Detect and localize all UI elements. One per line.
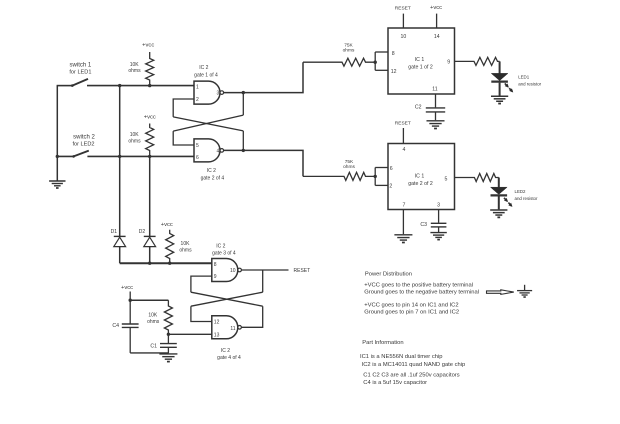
svg-text:C1 C2 C3 are all .1uf 250: C1 C2 C3 are all .1uf 250v capacitors xyxy=(363,372,459,378)
svg-text:9: 9 xyxy=(447,59,450,65)
wire: pin13 to C1 junction xyxy=(168,333,211,335)
wire: gate4 output rail up xyxy=(242,306,263,327)
svg-text:3: 3 xyxy=(217,91,220,97)
ground (LED1) xyxy=(491,95,508,97)
svg-text:10K: 10K xyxy=(130,132,140,138)
LED LED1 xyxy=(499,61,501,73)
svg-text:8: 8 xyxy=(392,51,395,57)
wire: switch1 row to gate1 pin1 xyxy=(87,85,194,87)
svg-text:D2: D2 xyxy=(139,229,146,235)
svg-text:ohms: ohms xyxy=(343,47,355,53)
svg-text:switch 1: switch 1 xyxy=(70,62,92,68)
node: 75K junction xyxy=(374,61,377,64)
IC U1a: 555 box (IC 1 gate 1 of 2) xyxy=(388,28,455,94)
svg-text:C4: C4 xyxy=(112,323,119,329)
resistor 10K (switch1 pull-up) xyxy=(146,52,154,86)
svg-text:ohms: ohms xyxy=(147,319,160,325)
svg-text:4: 4 xyxy=(217,148,220,154)
svg-text:6: 6 xyxy=(196,155,199,161)
svg-text:5: 5 xyxy=(196,143,199,149)
svg-text:IC 2: IC 2 xyxy=(199,65,208,71)
svg-text:D1: D1 xyxy=(111,229,118,235)
svg-text:14: 14 xyxy=(434,34,440,40)
svg-text:Ground goes to the negative ba: Ground goes to the negative battery term… xyxy=(364,290,479,296)
wire: D1 column (row1 to bus) xyxy=(119,86,121,237)
ground (C3) xyxy=(430,232,446,234)
svg-text:+VCC goes to pin 14 on IC1 and: +VCC goes to pin 14 on IC1 and IC2 xyxy=(364,302,458,308)
node: D2 / bus junction xyxy=(148,262,151,265)
svg-text:IC 2: IC 2 xyxy=(207,168,216,174)
svg-text:10K: 10K xyxy=(130,62,140,68)
svg-text:9: 9 xyxy=(214,274,217,280)
LED2 emission arrows xyxy=(504,198,507,201)
svg-text:11: 11 xyxy=(230,326,235,332)
svg-text:+vcc: +vcc xyxy=(430,5,442,11)
LED LED2 xyxy=(498,178,500,188)
ground (LED2) xyxy=(490,209,507,211)
svg-text:+vcc: +vcc xyxy=(161,222,173,228)
wire: cross diagonal (gate1 out -> pin5) xyxy=(173,115,243,131)
svg-text:and resistor: and resistor xyxy=(515,196,538,201)
wire: pin9 feedback rail xyxy=(191,276,212,292)
svg-text:RESET: RESET xyxy=(395,6,411,12)
wire: gate1 output right rail down xyxy=(242,93,244,116)
wire: gate2 output to 555 #2 xyxy=(224,150,303,176)
wire: left vertical rail xyxy=(56,86,58,181)
ground (C1) xyxy=(159,353,177,355)
resistor 75K (into IC1 gate2) xyxy=(303,172,375,180)
svg-text:IC1 is a NE556N dual timer chi: IC1 is a NE556N dual timer chip xyxy=(360,354,442,360)
wire: D2 column (row2 to bus) xyxy=(149,156,151,236)
pin 4 RESET lead xyxy=(402,128,404,144)
switch S2 'switch 2 for LED2' xyxy=(57,155,74,157)
svg-text:for LED1: for LED1 xyxy=(69,70,91,76)
pin 9 output wire + resistor to LED1 xyxy=(455,57,500,65)
wire: pin8/pin12 tie xyxy=(374,52,376,70)
wire: pin2 feedback left rail xyxy=(173,99,194,117)
svg-text:ohms: ohms xyxy=(128,138,141,144)
IC U1b: 555 box (IC 1 gate 2 of 2) xyxy=(388,144,455,210)
svg-text:ohms: ohms xyxy=(128,68,141,74)
wire: bus to gate3 pin 8 xyxy=(120,262,212,264)
svg-text:11: 11 xyxy=(432,86,437,92)
wire: vcc lead down to junction xyxy=(129,292,131,301)
svg-text:1: 1 xyxy=(196,84,199,90)
wire: pin6/pin2 tie xyxy=(374,168,376,186)
svg-text:IC 1: IC 1 xyxy=(415,174,425,180)
node: 75K junction 2 xyxy=(374,175,377,178)
op gate: NAND U2C (IC 2 gate 3 of 4) xyxy=(212,259,238,282)
wire: gate3 output to RESET xyxy=(241,269,288,271)
node: R2/row2 junction xyxy=(148,155,151,158)
svg-text:and resistor: and resistor xyxy=(518,82,541,87)
ground (below switches) xyxy=(49,180,65,182)
svg-text:+vcc: +vcc xyxy=(144,115,156,121)
svg-text:ohms: ohms xyxy=(179,248,192,254)
svg-text:LED2: LED2 xyxy=(515,189,527,194)
pin 10 RESET lead xyxy=(402,14,404,28)
pin 11 lead + capacitor C2 xyxy=(435,94,437,107)
svg-text:gate 4 of 4: gate 4 of 4 xyxy=(217,355,241,361)
wire: C4 bottom to ground rail xyxy=(130,352,168,354)
op gate: NAND U2D (IC 2 gate 4 of 4) xyxy=(212,316,238,339)
svg-text:+vcc: +vcc xyxy=(142,42,154,48)
svg-text:12: 12 xyxy=(391,69,397,75)
svg-text:6: 6 xyxy=(390,166,393,172)
svg-text:5: 5 xyxy=(445,177,448,183)
ground (pin 7) xyxy=(394,234,412,236)
wire: pin12 feedback rail xyxy=(191,306,212,321)
node: gate1 output junction xyxy=(242,91,245,94)
wire: switch2 row to gate2 pin6 xyxy=(87,155,194,157)
capacitor C4 xyxy=(129,300,131,323)
wire: gate3 output rail down xyxy=(262,270,264,292)
wire: cross diagonal (gate4 out -> pin9) xyxy=(191,292,263,306)
wire: gate1 output to 555 #1 xyxy=(224,62,303,92)
svg-text:10: 10 xyxy=(230,268,236,274)
svg-text:C2: C2 xyxy=(415,104,422,110)
svg-text:ohms: ohms xyxy=(343,164,355,170)
svg-text:7: 7 xyxy=(403,202,406,208)
node: R3 / bus xyxy=(168,262,171,265)
svg-text:Part Information: Part Information xyxy=(362,340,403,346)
node: D1 column / row2 xyxy=(118,155,121,158)
svg-text:Power Distribution: Power Distribution xyxy=(365,271,412,277)
node: gate2 output junction xyxy=(242,149,245,152)
svg-text:10K: 10K xyxy=(181,241,191,247)
diode D2 xyxy=(144,235,156,237)
svg-text:gate 2 of 4: gate 2 of 4 xyxy=(201,175,225,181)
svg-text:gate 1 of 4: gate 1 of 4 xyxy=(194,73,218,79)
pin 7 lead xyxy=(402,210,404,235)
svg-text:2: 2 xyxy=(389,184,392,190)
svg-text:IC 2: IC 2 xyxy=(216,244,225,250)
svg-text:C3: C3 xyxy=(420,222,427,228)
capacitor C1 xyxy=(167,334,169,343)
node: R4/C1/pin13 junction xyxy=(167,333,170,336)
wire: gate2 output right rail up xyxy=(242,131,244,151)
symbol: battery arrow xyxy=(487,290,514,295)
pin 5 output wire + resistor to LED2 xyxy=(455,174,499,182)
svg-text:10: 10 xyxy=(401,34,407,40)
resistor 75K (into IC1 gate1) xyxy=(303,58,375,66)
op gate: NAND U2A (IC 2 gate 1 of 4) xyxy=(194,81,220,104)
resistor 10K (timing, R4) xyxy=(164,300,172,334)
node: junction left rail / switch2 xyxy=(56,155,59,158)
svg-text:12: 12 xyxy=(214,320,220,326)
pin 14 +vcc lead xyxy=(436,14,438,28)
svg-text:+VCC goes to the positive batt: +VCC goes to the positive battery termin… xyxy=(364,282,473,288)
wire: junction to R4 top xyxy=(130,299,168,301)
svg-text:C1: C1 xyxy=(150,343,157,349)
wire: cross diagonal (gate3 out -> pin12) xyxy=(191,292,263,306)
wire: pin5 feedback left rail xyxy=(173,131,194,145)
svg-text:3: 3 xyxy=(437,202,440,208)
svg-text:gate 3 of 4: gate 3 of 4 xyxy=(212,251,236,257)
svg-text:IC 1: IC 1 xyxy=(415,57,425,63)
svg-text:+vcc: +vcc xyxy=(121,285,133,291)
svg-text:gate 2 of 2: gate 2 of 2 xyxy=(408,181,433,187)
svg-text:LED1: LED1 xyxy=(518,74,530,79)
svg-text:gate 1 of 2: gate 1 of 2 xyxy=(408,65,433,71)
svg-text:4: 4 xyxy=(403,147,406,153)
pin 3 lead + capacitor C3 xyxy=(438,210,440,223)
svg-text:10K: 10K xyxy=(148,312,158,318)
op gate: NAND U2B (IC 2 gate 2 of 4) xyxy=(194,139,220,162)
svg-text:2: 2 xyxy=(196,97,199,103)
switch S1 'switch 1 for LED1' xyxy=(57,85,73,87)
svg-text:RESET: RESET xyxy=(395,120,411,126)
ground (power note) xyxy=(524,285,526,291)
svg-text:switch 2: switch 2 xyxy=(73,135,95,141)
svg-text:RESET: RESET xyxy=(294,268,311,274)
ground (C2) xyxy=(426,120,444,122)
svg-text:IC 2: IC 2 xyxy=(221,348,230,354)
svg-text:Ground goes to pin 7 on IC1 an: Ground goes to pin 7 on IC1 and IC2 xyxy=(364,310,459,316)
wire: cross diagonal (gate2 out -> pin2) xyxy=(173,117,243,131)
LED1 emission arrows xyxy=(505,83,508,86)
node: R1/row1 junction xyxy=(148,84,151,87)
svg-text:8: 8 xyxy=(214,262,217,268)
resistor 10K (switch2 pull-up) xyxy=(146,124,154,157)
diode D1 xyxy=(114,235,126,237)
node: D1 column / row1 xyxy=(118,84,121,87)
svg-text:for LED2: for LED2 xyxy=(72,142,94,148)
svg-text:IC2 is a MC14011 quad NAND gat: IC2 is a MC14011 quad NAND gate chip xyxy=(362,362,466,368)
resistor 10K (gate3 pull-up) xyxy=(166,230,174,263)
svg-text:13: 13 xyxy=(214,332,220,338)
svg-text:C4 is a 5uf 15v capacitor: C4 is a 5uf 15v capacitor xyxy=(363,380,427,386)
node: C4/R4 junction xyxy=(129,299,132,302)
